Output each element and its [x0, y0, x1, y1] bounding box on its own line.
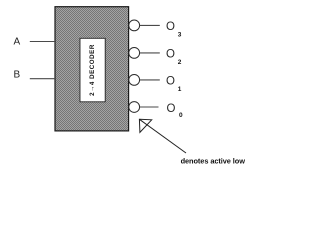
- svg-text:0: 0: [179, 112, 183, 119]
- svg-text:2→4 DECODER: 2→4 DECODER: [89, 44, 96, 96]
- active-low bubble output 1: [129, 75, 140, 86]
- svg-text:A: A: [14, 37, 21, 48]
- svg-text:B: B: [14, 70, 21, 81]
- wire output 0: [140, 106, 159, 108]
- svg-text:denotes active low: denotes active low: [181, 157, 246, 166]
- svg-text:1: 1: [178, 86, 182, 93]
- svg-text:3: 3: [178, 32, 182, 39]
- output label O3: [166, 21, 182, 38]
- svg-text:O: O: [166, 49, 175, 61]
- active-low bubble output 3: [129, 20, 140, 31]
- wire output 1: [140, 79, 160, 81]
- annotation arrowhead (open triangle pointing at bubble O0): [139, 119, 151, 132]
- label box (white plate inside decoder): [80, 38, 105, 102]
- wire input A: [30, 41, 55, 43]
- active-low bubble output 0: [129, 102, 140, 113]
- active-low bubble output 2: [129, 48, 140, 59]
- output label O2: [166, 49, 182, 66]
- svg-text:O: O: [166, 21, 175, 33]
- wire output 3: [140, 24, 160, 26]
- svg-text:2: 2: [178, 59, 182, 66]
- decoder block U1 (2-to-4 decoder body): [55, 7, 129, 131]
- svg-text:O: O: [166, 76, 175, 88]
- wire output 2: [140, 52, 160, 54]
- annotation leader line: [139, 119, 186, 153]
- svg-text:O: O: [167, 103, 176, 115]
- output label O1: [166, 76, 182, 93]
- output label O0: [167, 103, 184, 119]
- wire input B: [30, 78, 55, 80]
